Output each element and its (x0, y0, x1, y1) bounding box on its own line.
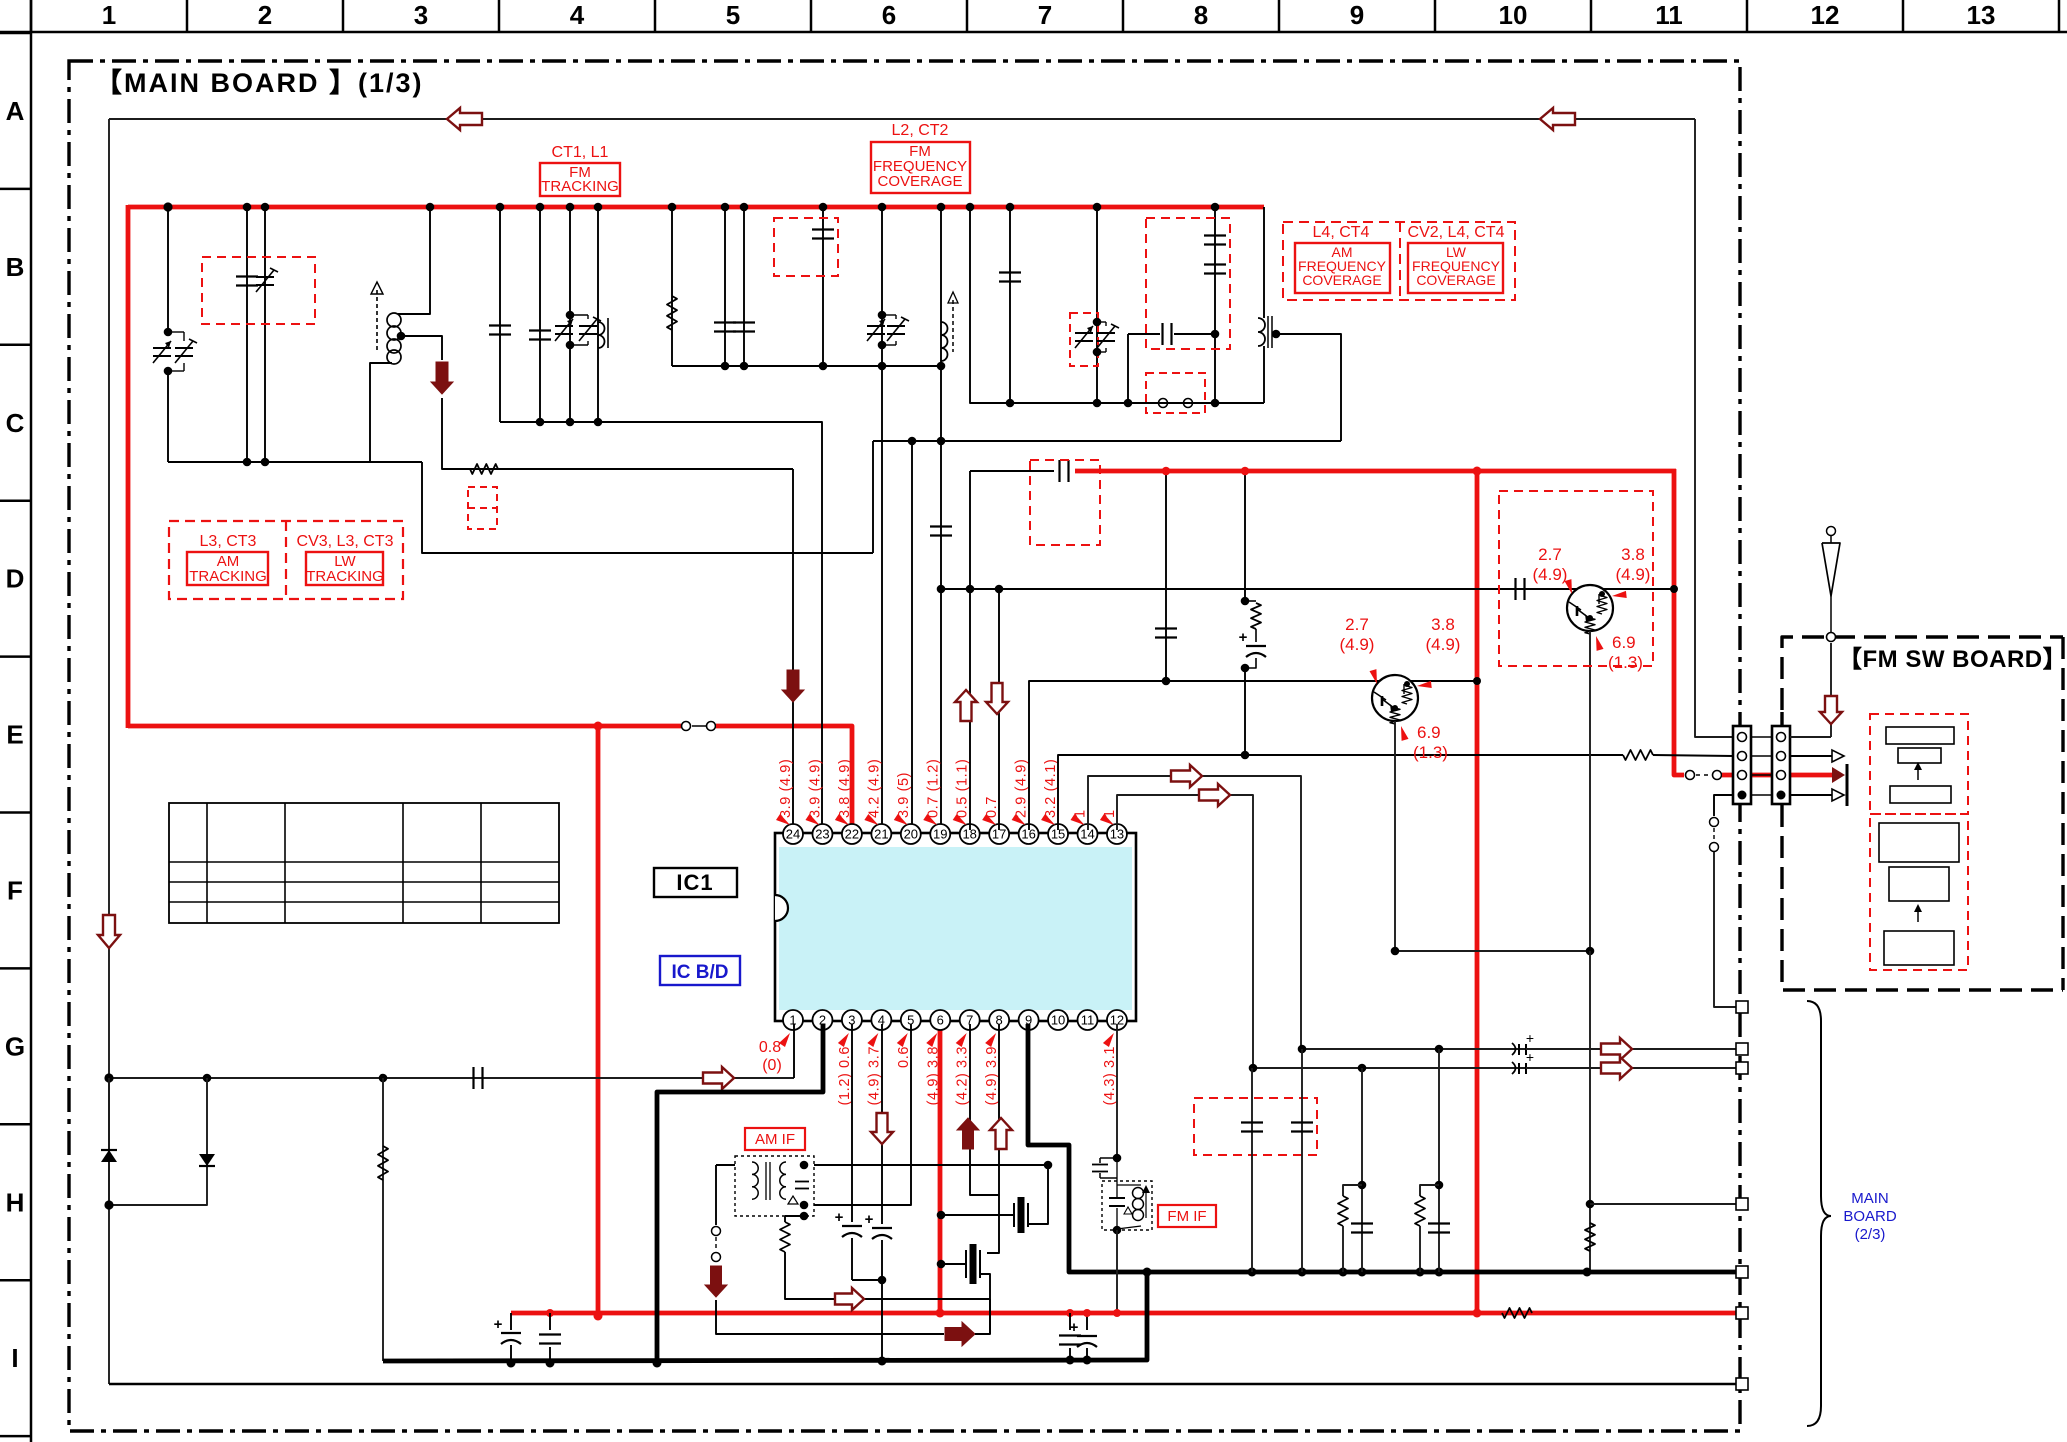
svg-text:I: I (11, 1343, 18, 1373)
wire fmtrack coil (597, 207, 599, 422)
resistor R conn row (1623, 750, 1653, 760)
svg-text:0.7 (1.2): 0.7 (1.2) (925, 759, 941, 818)
svg-text:L4, CT4: L4, CT4 (1313, 224, 1370, 241)
capacitor C x1010 (999, 271, 1021, 273)
wire conn row1 right (1790, 736, 1831, 738)
resistor R x383 (382, 1078, 384, 1361)
antenna symbol (1827, 633, 1836, 642)
varicap CT1a fm (555, 325, 573, 327)
svg-text:CV3, L3, CT3: CV3, L3, CT3 (297, 533, 394, 550)
svg-text:F: F (7, 876, 23, 906)
junction red bottom x598 (594, 1312, 603, 1321)
wire pin3-4 join (852, 1279, 882, 1281)
IC1 cyan fill (779, 847, 1132, 1010)
red dashed box CV2 (1070, 313, 1098, 366)
wire row4 to terminal (1714, 852, 1736, 1007)
svg-text:【FM SW BOARD】: 【FM SW BOARD】 (1838, 646, 2067, 673)
resistor R x672 (667, 296, 677, 330)
svg-text:3.2 (4.1): 3.2 (4.1) (1043, 759, 1059, 818)
wire y1068 cont (1526, 1067, 1740, 1069)
resistor R amif (784, 1216, 786, 1222)
junction pin19 y589 (937, 585, 946, 594)
electrolytic C red-gnd2 (1086, 1313, 1088, 1330)
svg-text:A: A (6, 96, 25, 126)
resistor R ant (470, 464, 498, 474)
wire pin20 vertical (911, 441, 913, 830)
arrow right open pin13 (1199, 784, 1230, 806)
wire pin12 drop (1116, 1024, 1118, 1158)
FMSW rectB (1889, 867, 1949, 901)
svg-text:B: B (6, 252, 25, 282)
wire pin17 vertical (998, 589, 1000, 830)
wire pin8 drop (987, 1024, 999, 1253)
svg-text:20: 20 (904, 827, 918, 842)
wire x1049 link (1044, 1161, 1053, 1170)
svg-text:L3, CT3: L3, CT3 (200, 533, 257, 550)
inductor L1 fm (598, 322, 605, 348)
red wire through connectors (1722, 773, 1838, 778)
capacitor C bottom2 (549, 1313, 551, 1330)
arrow right filled amif (945, 1322, 975, 1346)
arrow down open pin17 (986, 683, 1008, 714)
small dashed box D3 (468, 487, 497, 529)
wire q2 emitter (1589, 631, 1591, 951)
svg-text:(4.9): (4.9) (1426, 635, 1461, 654)
FMSW rectC (1884, 931, 1954, 965)
arrow down open FMSW (1820, 696, 1842, 724)
svg-text:FM IF: FM IF (1167, 1208, 1206, 1225)
ceramic filter CF2 (941, 1263, 966, 1265)
wire y1078 bus (109, 1077, 794, 1079)
capacitor C pin23 (812, 228, 834, 230)
junction (721, 203, 730, 212)
wire pin18 upper segment (970, 207, 1264, 403)
svg-text:(4.3) 3.1: (4.3) 3.1 (1102, 1046, 1118, 1105)
FM FREQUENCY COVERAGE box (871, 142, 970, 193)
svg-text:0.6: 0.6 (896, 1046, 912, 1068)
LW TRACKING box (306, 552, 383, 585)
wire x168 from rail (167, 207, 169, 332)
wire y589 base line (941, 588, 1674, 590)
arrow right open amif (835, 1288, 864, 1310)
red dashed box C23 (774, 218, 838, 276)
svg-text:22: 22 (845, 827, 859, 842)
wire x1128 branch (1127, 334, 1129, 403)
wire x247 cap branch (246, 207, 248, 462)
wire pin5 drop (814, 1024, 911, 1205)
switch S amif (712, 1227, 721, 1236)
svg-text:6: 6 (937, 1013, 944, 1028)
FM IF label box (1158, 1205, 1216, 1227)
IC B/D box (660, 956, 740, 985)
red dashed box B2 (202, 257, 315, 324)
wire x725 cap (724, 207, 726, 366)
svg-text:+: + (835, 1209, 844, 1226)
red rail E-row horizontal (128, 724, 681, 729)
wire fmtrack cap2 (539, 207, 541, 422)
junction diodes (104, 1200, 113, 1209)
arrow down filled antenna tap (431, 362, 453, 394)
resistor R q2e (1585, 1223, 1595, 1251)
junction emitters (1391, 947, 1400, 956)
wire conn row4 right (1790, 794, 1832, 796)
wire pin18 lower (969, 471, 971, 830)
svg-text:+: + (1239, 629, 1248, 646)
ceramic filter CF1 (941, 1214, 1014, 1216)
svg-text:(1.2) 0.6: (1.2) 0.6 (837, 1046, 853, 1105)
svg-text:13: 13 (1967, 0, 1996, 30)
wire y1049 route (1302, 1048, 1525, 1050)
svg-text:BOARD: BOARD (1843, 1208, 1897, 1225)
wire y1068 route (1253, 1067, 1525, 1069)
resistor R x1420 (1420, 1185, 1439, 1196)
IC1 top pins 24-13 (783, 824, 1127, 844)
wire x265 trimmer branch (264, 207, 266, 462)
arrow up filled pin7 (957, 1118, 979, 1149)
FMSW up arrow2 (1917, 908, 1919, 922)
L4 CT4 outer dashed (1283, 222, 1515, 300)
svg-text:CT1, L1: CT1, L1 (552, 144, 609, 161)
red wire IC pin6 drop (938, 1024, 943, 1313)
junction pin18 rail (966, 203, 975, 212)
capacitor C fmtrack2 (529, 329, 551, 331)
svg-text:(2/3): (2/3) (1855, 1226, 1886, 1243)
svg-text:(0): (0) (762, 1057, 782, 1074)
FM IF transformer (1102, 1181, 1152, 1230)
svg-text:10: 10 (1499, 0, 1528, 30)
trimmer cap at 265 (256, 276, 274, 278)
junction x265 (261, 203, 270, 212)
FMSW rect2 (1898, 748, 1941, 763)
svg-text:4: 4 (570, 0, 585, 30)
arrow left open on top wire A (447, 108, 482, 130)
wire x1215 branch (1214, 207, 1216, 403)
red dashed box y470 cap (1030, 460, 1100, 545)
svg-text:3.9 (5): 3.9 (5) (896, 772, 912, 818)
resistor R x1343 (1343, 1185, 1362, 1196)
svg-text:6.9: 6.9 (1417, 723, 1441, 742)
red wire to IC pin22 (716, 726, 852, 830)
wire pin9 thick route (1028, 1024, 1150, 1272)
IC1 bottom pin voltage labels (837, 1033, 1118, 1105)
wire fmtrack varcap (569, 207, 571, 422)
svg-text:8: 8 (1194, 0, 1208, 30)
junction x672 top (668, 203, 677, 212)
wire AGC loop right vertical (1695, 119, 1733, 737)
svg-text:+: + (1070, 1319, 1079, 1336)
FM TRACKING box (540, 163, 620, 196)
transistor Q3 (1372, 675, 1418, 721)
arrow right open y1078 (703, 1067, 734, 1089)
wire pin21 vertical (881, 207, 883, 830)
svg-text:(1.3): (1.3) (1413, 743, 1448, 762)
electrolytic C pin4 (872, 1227, 892, 1229)
wire x1264 transformer (1263, 207, 1265, 318)
junction q2 line y1204 (1586, 1200, 1595, 1209)
wire x1362 network (1361, 1068, 1363, 1272)
svg-text:2.7: 2.7 (1345, 615, 1369, 634)
AM IF label box (745, 1128, 805, 1150)
capacitor C x1439 (1428, 1222, 1450, 1224)
IC1 ref box (654, 868, 737, 897)
svg-text:21: 21 (874, 827, 888, 842)
junction (878, 203, 887, 212)
series capacitor C osc (1128, 333, 1160, 335)
wire bottom return (109, 1383, 1740, 1386)
svg-text:3.9 (4.9): 3.9 (4.9) (807, 759, 823, 818)
wire y366 bus (672, 365, 941, 367)
capacitor C x1302b (1301, 1049, 1303, 1272)
arrow right open y1049 (1601, 1038, 1632, 1060)
junction red pin6 (936, 1309, 945, 1318)
red wire arrowhead into bar (1832, 767, 1845, 783)
svg-text:5: 5 (726, 0, 740, 30)
trimmer CT osc (1097, 332, 1115, 334)
wire AM IF left drop (715, 1165, 717, 1225)
red dashed box osc caps (1146, 218, 1230, 349)
arrow down filled amif (705, 1266, 727, 1297)
wire conn row2 right (1790, 755, 1832, 757)
IC1 notch (775, 895, 788, 921)
wire y1049 cont (1526, 1048, 1740, 1050)
AM IF transformer (735, 1156, 814, 1216)
wire pin7 drop (970, 1024, 999, 1195)
FMSW rect1 (1886, 727, 1954, 744)
svg-text:7: 7 (1038, 0, 1052, 30)
wire pin14 route (1088, 776, 1301, 1049)
FMSW rect3 (1890, 786, 1951, 803)
svg-text:H: H (6, 1187, 25, 1217)
svg-text:G: G (5, 1031, 25, 1061)
wire x1166 branch (1165, 471, 1167, 681)
junction y403 (1093, 399, 1102, 408)
IC1 body (775, 833, 1136, 1021)
wire pin19 vertical (940, 207, 942, 830)
red rail left vertical (126, 205, 131, 728)
MAIN BOARD dash-dot border (69, 61, 1740, 1431)
wire pin15 row cont (1653, 755, 1733, 756)
svg-text:COVERAGE: COVERAGE (1302, 272, 1381, 288)
wire pin2 thick route (657, 1024, 823, 1363)
arrow left open on top wire B (1540, 108, 1575, 130)
LW FREQUENCY COVERAGE box (1408, 243, 1503, 293)
junction x247 (243, 203, 252, 212)
diode D2 (109, 1078, 207, 1205)
svg-text:3: 3 (414, 0, 428, 30)
svg-text:CV2, L4, CT4: CV2, L4, CT4 (1408, 224, 1505, 241)
svg-text:COVERAGE: COVERAGE (877, 173, 962, 190)
svg-text:【MAIN BOARD 】(1/3): 【MAIN BOARD 】(1/3) (95, 68, 424, 98)
capacitor C x1252b (1251, 1068, 1253, 1272)
capacitor C at 247 (236, 275, 258, 277)
junction pin18 (966, 585, 975, 594)
svg-text:C: C (6, 408, 25, 438)
junction x1166 (1162, 467, 1171, 476)
red dashed box osc switch (1146, 373, 1205, 413)
wire to terminal y1204 (1590, 1203, 1740, 1205)
wire pin13 route (1117, 795, 1253, 1068)
svg-text:MAIN: MAIN (1851, 1190, 1889, 1207)
svg-text:IC1: IC1 (676, 870, 713, 895)
wire y462 bus (168, 461, 422, 463)
electrolytic C red-gnd1 (1066, 1309, 1074, 1317)
varicap CV1a (153, 347, 171, 349)
junction y462 (243, 458, 252, 467)
svg-text:(4.9): (4.9) (1616, 565, 1651, 584)
wire x1097 varicap (1096, 207, 1098, 403)
electrolytic C bottom1 (510, 1313, 512, 1330)
svg-text:(1.3): (1.3) (1608, 653, 1643, 672)
svg-text:10: 10 (1051, 1013, 1065, 1028)
junction amif bottom (800, 1201, 809, 1210)
resistor R on red bottom rail (1502, 1308, 1532, 1318)
wire x1439 network (1438, 1049, 1440, 1272)
connector output bar (1846, 764, 1849, 806)
junction red x1477 bottom (1473, 1309, 1482, 1318)
svg-text:(4.9) 3.7: (4.9) 3.7 (866, 1046, 882, 1105)
red vertical rail x598 (596, 726, 601, 1317)
svg-text:(4.9): (4.9) (1533, 565, 1568, 584)
svg-text:+: + (1526, 1030, 1534, 1046)
capacitor C fmtrack1 (489, 324, 511, 326)
wire pin16 vertical (1029, 681, 1477, 830)
svg-text:3.9 (4.9): 3.9 (4.9) (778, 759, 794, 818)
capacitor C x1362 (1351, 1222, 1373, 1224)
wire pin4 drop (881, 1024, 883, 1224)
red dashed box bottomcaps (1194, 1098, 1317, 1155)
svg-text:TRACKING: TRACKING (541, 178, 619, 195)
wire q3 emitter (1394, 721, 1396, 951)
switch S row4 (1710, 818, 1719, 827)
red bottom rail (511, 1311, 1740, 1316)
FM SW BOARD dash-dot border (1782, 637, 2063, 990)
resistor R x1252 (1245, 600, 1256, 602)
svg-text:+: + (494, 1316, 503, 1333)
wire pin24 vertical (792, 469, 794, 830)
trimmer CT pin21 (887, 325, 905, 327)
red mid rail y470 (1075, 469, 1676, 474)
capacitor C x725 (714, 321, 736, 323)
svg-text:11: 11 (1081, 1013, 1095, 1028)
connector CN2 (1772, 726, 1790, 804)
wire pin3 drop (851, 1024, 853, 1222)
board edge terminals (1736, 1001, 1748, 1390)
wire tap to pin24 row (442, 398, 793, 469)
FMSW rectA (1879, 823, 1959, 862)
red vertical x1674 (1674, 469, 1684, 775)
svg-text:6: 6 (882, 0, 896, 30)
osc transformer T (1258, 318, 1265, 346)
wire resistor branch x672 (671, 207, 673, 366)
red dashed box Q2 (1499, 491, 1653, 666)
svg-text:E: E (6, 720, 23, 750)
capacitor C y1078 (472, 1067, 474, 1089)
FMSW dashed box lower (1870, 814, 1968, 970)
junction red rail left end (546, 1309, 554, 1317)
arrow down open on left wire (98, 915, 120, 948)
red rail top horizontal (128, 205, 1264, 210)
svg-text:2.9 (4.9): 2.9 (4.9) (1014, 759, 1030, 818)
capacitor C x1166 (1155, 627, 1177, 629)
brace main board 2/3 (1807, 1001, 1831, 1426)
svg-text:+: + (1526, 1049, 1534, 1065)
svg-text:L2, CT2: L2, CT2 (892, 122, 949, 139)
svg-text:2: 2 (258, 0, 272, 30)
svg-text:COVERAGE: COVERAGE (1416, 272, 1495, 288)
wire riser x873 (872, 441, 874, 553)
svg-text:1: 1 (789, 1013, 796, 1028)
arrow up open pin8 (990, 1118, 1012, 1149)
capacitor C y470 series (970, 470, 1054, 472)
arrow up open pin18 (955, 690, 977, 721)
svg-text:(4.9) 3.9: (4.9) 3.9 (984, 1046, 1000, 1105)
electrolytic C pin3 (842, 1225, 862, 1227)
antenna coil L (387, 313, 401, 327)
svg-text:(4.9) 3.8: (4.9) 3.8 (925, 1046, 941, 1105)
arrow down open pin4 (871, 1113, 893, 1144)
electrolytic C y1068 (1518, 1063, 1520, 1074)
wire q2 emitter down (1589, 951, 1591, 1272)
svg-text:24: 24 (786, 827, 800, 842)
osc coil dashed arrow (952, 300, 954, 352)
trimmer CT1b fm (579, 325, 597, 327)
junction (163, 202, 172, 211)
junction (937, 203, 946, 212)
wire transformer tap (1276, 334, 1341, 441)
varicap CV pin21 (867, 325, 885, 327)
wire pin12 lower (1116, 1230, 1118, 1313)
junction red x598 (594, 722, 603, 731)
svg-text:0.8: 0.8 (759, 1039, 781, 1056)
wire pin23 upper (822, 207, 824, 366)
junction pin12 (1113, 1154, 1122, 1163)
svg-text:4.2 (4.9): 4.2 (4.9) (866, 759, 882, 818)
svg-text:TRACKING: TRACKING (189, 568, 267, 585)
IC1 bottom pins 1-12 (783, 1010, 1127, 1030)
junction x1245 (1241, 467, 1250, 476)
wire pin15 to connector row (1058, 755, 1623, 830)
svg-text:+: + (865, 1211, 874, 1228)
adjustment table (169, 803, 559, 923)
capacitor C x744 (733, 321, 755, 323)
junction q2 line end (1670, 585, 1678, 593)
svg-text:TRACKING: TRACKING (306, 568, 384, 585)
capacitor C x1215a (1204, 234, 1226, 236)
svg-text:IC B/D: IC B/D (672, 962, 729, 983)
wire C3 corner link (422, 462, 873, 553)
junctions y366 (721, 362, 730, 371)
arrow right open pin14 (1171, 765, 1202, 787)
wire x1245 branch (1244, 471, 1246, 601)
switch S2 on red connector wire (1686, 771, 1695, 780)
wire conn row4 left route (1714, 795, 1733, 816)
transistor Q2 (1567, 585, 1613, 631)
svg-text:3.8: 3.8 (1621, 545, 1645, 564)
svg-text:3.8: 3.8 (1431, 615, 1455, 634)
FMSW dashed box upper (1870, 714, 1968, 814)
L3 CT3 outer dashed box (169, 521, 403, 599)
AM FREQUENCY COVERAGE box (1295, 243, 1390, 293)
wire x1010 branch (1009, 207, 1011, 403)
connector pins (1738, 733, 1786, 800)
wire pin1 vertical (793, 1024, 795, 1078)
svg-text:6.9: 6.9 (1612, 633, 1636, 652)
svg-text:1: 1 (102, 0, 116, 30)
capacitor C x1215b (1204, 263, 1226, 265)
svg-text:(4.9): (4.9) (1340, 635, 1375, 654)
svg-text:11: 11 (1655, 0, 1683, 30)
svg-text:9: 9 (1350, 0, 1364, 30)
